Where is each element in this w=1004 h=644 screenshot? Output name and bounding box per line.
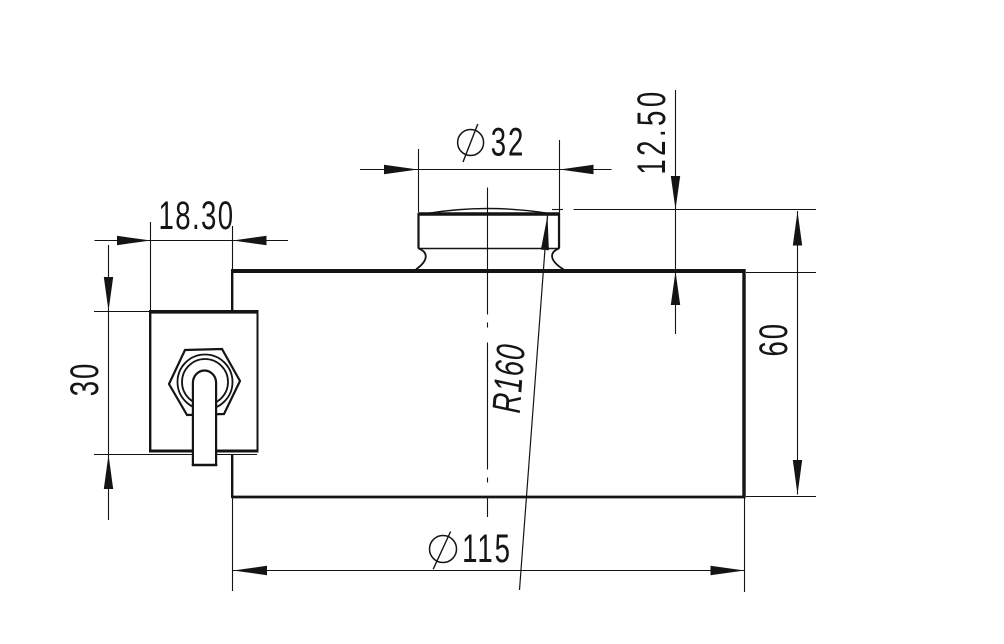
cable gland hex nut [169,349,240,415]
apex extension line (dashed) [552,209,563,211]
svg-text:18.30: 18.30 [159,194,235,238]
svg-text:115: 115 [462,527,512,571]
connector block on left [149,310,259,455]
dim 60 extension lines [746,272,816,274]
load button top cap [416,209,564,270]
dim phi32 extension lines [418,149,420,212]
dim 12.50 dimension line [675,90,677,334]
dim 30 dimension line [108,245,110,520]
svg-text:60: 60 [752,322,796,357]
svg-text:12.50: 12.50 [630,88,674,174]
svg-text:R160: R160 [485,342,534,414]
dim 60 arrows [793,211,802,245]
dim 30 extension lines [94,311,150,313]
dim 12.50 arrows [671,176,680,210]
svg-text:30: 30 [63,362,107,397]
dim phi115 dimension line [233,570,745,572]
dim 30 arrows [104,277,113,311]
dim phi115 extension lines [232,498,234,591]
cable [192,370,217,466]
diameter symbol of phi32 [458,130,484,156]
dim 60 dimension line [797,211,799,495]
svg-text:32: 32 [491,121,526,165]
R160 leader line with arrow [520,216,548,591]
dim 18.30 arrows [117,236,151,245]
dim phi32 arrows [384,165,418,174]
diameter symbol of phi115 [430,536,457,563]
dim phi32 dimension line [360,169,612,171]
body outline (side view of load cell) [231,269,746,498]
dim 18.30 dimension line [95,240,289,242]
centerline of button (dash-dot) [487,188,489,518]
dim 18.30 extension lines [150,222,152,311]
dim phi115 arrows [233,566,267,575]
